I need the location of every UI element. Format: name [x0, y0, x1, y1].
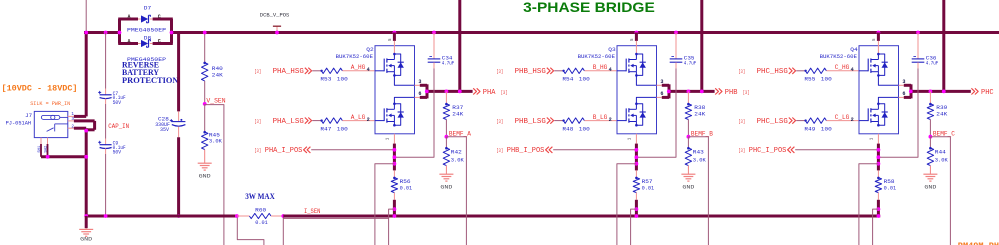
svg-text:0.01: 0.01	[884, 186, 897, 192]
svg-text:100: 100	[337, 77, 348, 83]
junction kelvin tap upper	[393, 162, 397, 166]
shunt resistor R57 0.01	[635, 170, 637, 177]
svg-text:R39: R39	[936, 105, 947, 111]
svg-text:PHC_HSG: PHC_HSG	[757, 68, 788, 76]
wire diode branch D8	[118, 42, 138, 45]
wire phase node bracket PHC	[904, 84, 911, 87]
svg-text:0.01: 0.01	[642, 186, 655, 192]
wire DCB_V_POS top rail (left of diode block)	[84, 31, 120, 34]
svg-text:2: 2	[609, 117, 612, 123]
svg-text:DCB_V_POS: DCB_V_POS	[260, 12, 290, 18]
svg-text:D7: D7	[144, 6, 151, 12]
svg-text:C: C	[158, 14, 161, 20]
gate pin net B_LG	[584, 120, 617, 122]
svg-text:GND: GND	[440, 184, 453, 191]
port PHC off-page	[971, 88, 974, 94]
resistor R40 24K	[204, 33, 206, 63]
node BEMF_B	[687, 135, 691, 139]
ground below R43	[687, 166, 689, 175]
svg-text:[3]: [3]	[254, 68, 261, 75]
power symbol DCB_V_POS	[276, 27, 278, 33]
svg-text:PHB: PHB	[725, 89, 738, 97]
wire pin6 drain route Q3	[636, 97, 656, 103]
wire kelvin sense lower to bottom edge	[873, 209, 879, 245]
wire kelvin sense lower to bottom edge	[631, 209, 637, 245]
wire C9 to bottom rail	[105, 154, 107, 216]
wire R58 to ground rail	[877, 200, 880, 216]
svg-text:C: C	[158, 39, 161, 45]
svg-text:[3]: [3]	[496, 118, 503, 125]
resistor R54 100	[563, 68, 584, 73]
svg-text:4.7uF: 4.7uF	[684, 61, 696, 67]
wire kelvin sense upper to bottom edge	[617, 164, 637, 245]
svg-text:[3]: [3]	[738, 147, 745, 154]
svg-text:4: 4	[367, 67, 370, 73]
resistor R42 3.0K	[445, 137, 447, 148]
svg-text:3W MAX: 3W MAX	[245, 191, 275, 201]
svg-text:[3]: [3]	[254, 147, 261, 154]
wire R60 kelvin right	[282, 218, 284, 245]
resistor R43 3.0K	[687, 137, 689, 148]
wire C36 down to source node	[878, 68, 918, 157]
svg-text:GND: GND	[199, 172, 212, 179]
wire pin6 drain route Q2	[394, 97, 414, 103]
junction DCB_V_POS on rail	[275, 31, 279, 35]
wire PHA to top edge	[458, 0, 461, 91]
junction SH/return	[46, 155, 50, 159]
gate pin net C_LG	[826, 120, 859, 122]
junction C36 tap	[877, 155, 881, 159]
svg-text:[3]: [3]	[496, 147, 503, 154]
svg-text:[3]: [3]	[738, 68, 745, 75]
wire pin3 source route Q4	[878, 75, 898, 85]
svg-text:3.0K: 3.0K	[693, 157, 707, 163]
capacitor C36 4.7uF	[916, 31, 920, 35]
svg-text:35V: 35V	[160, 127, 170, 133]
wire PHA_HSG to gate resistor	[312, 70, 321, 72]
svg-text:R55: R55	[804, 77, 815, 83]
wire kelvin sense link to phase A shunt	[283, 217, 388, 219]
svg-text:[3]: [3]	[496, 68, 503, 75]
svg-text:PHB_I_POS: PHB_I_POS	[507, 147, 545, 155]
svg-text:R37: R37	[452, 105, 463, 111]
svg-text:4.7uF: 4.7uF	[926, 61, 938, 67]
wire diode branch D7	[118, 18, 138, 21]
svg-text:100: 100	[337, 126, 348, 132]
svg-text:PMEG4050EP: PMEG4050EP	[127, 28, 166, 34]
svg-text:2: 2	[851, 117, 854, 123]
svg-text:24K: 24K	[694, 112, 706, 118]
wire PHC_HSG to gate resistor	[796, 70, 805, 72]
svg-text:PHB_LSG: PHB_LSG	[515, 118, 546, 126]
gate pin net A_LG	[342, 120, 375, 122]
port PHB off-page	[715, 88, 718, 94]
high-side MOSFET of Q4	[859, 70, 868, 72]
connector pin 3	[68, 120, 74, 122]
wire bulk cap column from rail	[177, 33, 180, 112]
diode D8 PMEG4050EP	[141, 40, 148, 47]
wire SH pins to return	[40, 144, 42, 157]
capacitor C34 4.7uF	[432, 31, 436, 35]
svg-text:PROTECTION: PROTECTION	[122, 75, 179, 85]
wire V_SEN to bottom edge	[205, 105, 224, 245]
low-side MOSFET of Q3	[617, 120, 626, 122]
junction C34 tap	[393, 155, 397, 159]
svg-text:PM49M PHASE: PM49M PHASE	[958, 241, 999, 245]
shunt resistor R56 0.01	[393, 170, 395, 177]
svg-text:24K: 24K	[212, 72, 224, 78]
ground main	[85, 216, 88, 228]
wire pin 3 to return	[74, 119, 95, 122]
svg-text:I_SEN: I_SEN	[304, 208, 320, 215]
wire source to shunt R58	[877, 134, 879, 144]
svg-text:0.01: 0.01	[400, 186, 413, 192]
svg-text:[3]: [3]	[254, 118, 261, 125]
wire PHB_HSG to gate resistor	[554, 70, 563, 72]
wire kelvin sense lower to bottom edge	[389, 209, 395, 245]
ground below R42	[445, 166, 447, 175]
svg-text:R40: R40	[212, 66, 223, 72]
junction PHA up-wire	[458, 90, 462, 94]
svg-text:100: 100	[821, 126, 832, 132]
junction R57 on ground rail	[635, 214, 639, 218]
gate pin net B_HG	[584, 70, 617, 72]
pin 6 stub Q2	[415, 96, 420, 98]
svg-text:[3]: [3]	[738, 118, 745, 125]
junction C28 on rails	[177, 214, 181, 218]
junction kelvin tap lower	[635, 207, 639, 211]
junction R56 on ground rail	[393, 214, 397, 218]
wire drain feed from rail Q2	[393, 31, 397, 35]
svg-text:PHB_HSG: PHB_HSG	[515, 68, 546, 76]
svg-text:GND: GND	[924, 184, 937, 191]
high-side MOSFET of Q2	[375, 70, 384, 72]
wire bottom ground rail left segment	[86, 215, 237, 218]
transistor Q3 BUK7K52-60E dual MOSFET	[617, 46, 657, 134]
resistor R49 100	[805, 118, 826, 123]
svg-text:4.7uF: 4.7uF	[442, 61, 454, 67]
svg-text:Q2: Q2	[366, 46, 373, 53]
wire phase node bracket PHB	[662, 84, 669, 87]
connector pin 1	[68, 115, 74, 117]
svg-text:C_HG: C_HG	[835, 64, 850, 71]
gate pin net A_HG	[342, 70, 375, 72]
svg-text:R48: R48	[562, 126, 573, 132]
svg-text:3.0K: 3.0K	[451, 157, 465, 163]
wire pin6 drain route Q4	[878, 97, 898, 103]
resistor R53 100	[321, 68, 342, 73]
wire PHA_LSG to gate resistor	[312, 120, 321, 122]
svg-text:R38: R38	[694, 105, 705, 111]
resistor R37 24K	[445, 90, 449, 94]
junction pin3/pin2	[84, 129, 88, 133]
wire PHB_I_POS to source node	[553, 149, 636, 151]
capacitor C35 4.7uF	[674, 31, 678, 35]
resistor R48 100	[563, 118, 584, 123]
junction kelvin tap lower	[877, 207, 881, 211]
wire between C7 and C9	[105, 33, 107, 89]
wire BEMF_C to bottom edge	[930, 137, 950, 245]
svg-text:PHA_I_POS: PHA_I_POS	[265, 147, 303, 155]
gate pin net C_HG	[826, 70, 859, 72]
ground below R45	[204, 150, 206, 164]
wire PHB to top edge	[700, 0, 703, 91]
wire BEMF_B to bottom edge	[688, 137, 708, 245]
svg-text:PHA: PHA	[483, 89, 496, 97]
wire PHA_I_POS to source node	[311, 149, 394, 151]
svg-text:R58: R58	[884, 179, 895, 185]
diode D7 PMEG4050EP	[141, 15, 148, 22]
capacitor C7 0.1uF 50V	[105, 89, 107, 95]
pin 3 stub Q4	[899, 84, 904, 86]
junction kelvin tap lower	[393, 207, 397, 211]
wire phase node bracket PHA	[420, 84, 427, 87]
wire PHC_I_POS to source node	[795, 149, 878, 151]
svg-text:A_LG: A_LG	[351, 114, 366, 121]
svg-text:0.01: 0.01	[255, 220, 268, 226]
resistor R47 100	[321, 118, 342, 123]
resistor R38 24K	[687, 90, 691, 94]
svg-text:24K: 24K	[452, 112, 464, 118]
svg-text:BUK7K52-60E: BUK7K52-60E	[578, 54, 615, 60]
wire kelvin sense upper to bottom edge	[375, 164, 395, 245]
junction C9 bottom	[104, 214, 108, 218]
capacitor C28 330UF 35V	[178, 111, 180, 121]
port PHA off-page	[473, 88, 476, 94]
svg-text:BUK7K52-60E: BUK7K52-60E	[820, 54, 857, 60]
svg-text:Q3: Q3	[608, 46, 615, 53]
junction PHB_I_POS tap	[635, 148, 639, 152]
wire pin3 source route Q3	[636, 75, 656, 85]
junction kelvin tap upper	[877, 162, 881, 166]
svg-text:A: A	[127, 14, 130, 20]
ground below R44	[929, 166, 931, 175]
low-side MOSFET of Q2	[375, 120, 384, 122]
low-side MOSFET of Q4	[859, 120, 868, 122]
resistor R44 3.0K	[929, 137, 931, 148]
svg-text:3-PHASE BRIDGE: 3-PHASE BRIDGE	[523, 0, 655, 15]
wire pin3 source route Q2	[394, 75, 414, 85]
capacitor C9 0.1uF 50V	[105, 139, 107, 145]
wire V+ from rail to pin 1	[85, 33, 88, 117]
svg-text:3.0K: 3.0K	[935, 157, 949, 163]
pin 6 stub Q4	[899, 96, 904, 98]
junction bracket PHC	[909, 90, 913, 94]
svg-text:SILK = PWR_IN: SILK = PWR_IN	[30, 101, 70, 107]
svg-text:50V: 50V	[113, 100, 122, 106]
wire source to shunt R56	[393, 134, 395, 144]
svg-text:PHC_I_POS: PHC_I_POS	[749, 147, 787, 155]
wire C34 down to source node	[394, 68, 434, 157]
resistor R55 100	[805, 68, 826, 73]
shunt resistor R60 0.01	[235, 214, 239, 218]
wire phase output PHB	[669, 90, 715, 93]
wire BEMF_A to bottom edge	[446, 137, 466, 245]
svg-text:B_LG: B_LG	[593, 114, 608, 121]
svg-text:C_LG: C_LG	[835, 114, 850, 121]
wire drain feed from rail Q3	[635, 31, 639, 35]
wire source to shunt R57	[635, 134, 637, 144]
svg-text:GND: GND	[682, 184, 695, 191]
junction bracket PHA	[425, 90, 429, 94]
junction PHB up-wire	[700, 90, 704, 94]
svg-text:V_SEN: V_SEN	[206, 98, 225, 105]
connector pins SH1 SH2	[40, 138, 42, 144]
transistor Q2 BUK7K52-60E dual MOSFET	[375, 46, 415, 134]
pin 6 stub Q3	[657, 96, 662, 98]
wire R57 to ground rail	[635, 200, 638, 216]
wire C28 to bottom rail	[177, 137, 180, 216]
wire R56 to ground rail	[393, 200, 396, 216]
svg-text:R44: R44	[935, 149, 946, 155]
wire PHB_LSG to gate resistor	[554, 120, 563, 122]
wire kelvin sense upper to bottom edge	[859, 164, 879, 245]
node BEMF_A	[445, 135, 449, 139]
svg-text:3.0K: 3.0K	[209, 139, 223, 145]
svg-text:R57: R57	[642, 179, 653, 185]
wire PHC to top edge	[942, 0, 945, 91]
wire phase output PHA	[427, 90, 473, 93]
svg-text:24K: 24K	[936, 112, 948, 118]
svg-text:R47: R47	[320, 126, 331, 132]
high-side MOSFET of Q3	[617, 70, 626, 72]
junction PHC_I_POS tap	[877, 148, 881, 152]
wire bottom rail I_SEN segment	[283, 215, 880, 218]
wire drain feed from rail Q4	[877, 31, 881, 35]
svg-text:PHA_HSG: PHA_HSG	[273, 68, 304, 76]
svg-text:4: 4	[851, 67, 854, 73]
svg-text:R49: R49	[804, 126, 815, 132]
svg-text:A: A	[127, 39, 130, 45]
svg-text:J7: J7	[25, 113, 32, 119]
svg-text:R53: R53	[320, 77, 331, 83]
wire input feed from top edge	[85, 0, 87, 33]
svg-text:[3]: [3]	[501, 89, 508, 96]
wire pin 2 return down	[74, 127, 86, 130]
shunt resistor R58 0.01	[877, 170, 879, 177]
wire C35 down to source node	[636, 68, 676, 157]
junction kelvin tap upper	[635, 162, 639, 166]
node V_SEN	[203, 102, 207, 106]
svg-text:100: 100	[821, 77, 832, 83]
svg-text:R54: R54	[562, 77, 573, 83]
pin 3 stub Q3	[657, 84, 662, 86]
junction C35 tap	[635, 155, 639, 159]
svg-text:D8: D8	[144, 36, 151, 42]
junction PHC up-wire	[942, 90, 946, 94]
svg-text:50V: 50V	[113, 150, 122, 156]
svg-text:CAP_IN: CAP_IN	[108, 123, 129, 130]
svg-text:4: 4	[609, 67, 612, 73]
diode block left node	[118, 19, 121, 44]
connector pin 2	[68, 127, 74, 129]
svg-text:Q4: Q4	[850, 46, 858, 53]
svg-text:R60: R60	[255, 207, 266, 213]
wire R60 kelvin left	[237, 218, 264, 245]
node BEMF_C	[929, 135, 933, 139]
svg-text:PJ-051AH: PJ-051AH	[6, 120, 32, 126]
svg-text:A_HG: A_HG	[351, 64, 366, 71]
svg-text:PHC_LSG: PHC_LSG	[757, 118, 788, 126]
pin 3 stub Q2	[415, 84, 420, 86]
svg-text:R43: R43	[693, 149, 704, 155]
wire PHC_LSG to gate resistor	[796, 120, 805, 122]
wire DCB_V_POS top rail (right of diode block)	[172, 31, 999, 34]
svg-text:100: 100	[579, 126, 590, 132]
svg-text:BUK7K52-60E: BUK7K52-60E	[336, 54, 373, 60]
resistor R45 3.0K	[204, 104, 206, 132]
wire phase output PHC	[911, 90, 971, 93]
svg-text:100: 100	[579, 77, 590, 83]
svg-text:2: 2	[367, 117, 370, 123]
svg-text:GND: GND	[80, 236, 93, 243]
svg-text:PHA_LSG: PHA_LSG	[273, 118, 304, 126]
junction C7 column on rail	[104, 31, 108, 35]
junction R58 on ground rail	[877, 214, 881, 218]
junction rail corner	[84, 214, 88, 218]
diode block right node	[170, 19, 173, 44]
svg-text:[10VDC - 18VDC]: [10VDC - 18VDC]	[2, 84, 78, 94]
svg-text:R42: R42	[451, 149, 462, 155]
svg-text:B_HG: B_HG	[593, 64, 608, 71]
junction bracket PHB	[667, 90, 671, 94]
junction PHA_I_POS tap	[393, 148, 397, 152]
resistor R39 24K	[929, 90, 933, 94]
svg-text:PHC: PHC	[981, 89, 994, 97]
transistor Q4 BUK7K52-60E dual MOSFET	[859, 46, 899, 134]
svg-text:R45: R45	[209, 132, 220, 138]
svg-text:R56: R56	[400, 179, 411, 185]
junction input feed on rail	[84, 31, 88, 35]
svg-text:[3]: [3]	[743, 89, 750, 96]
